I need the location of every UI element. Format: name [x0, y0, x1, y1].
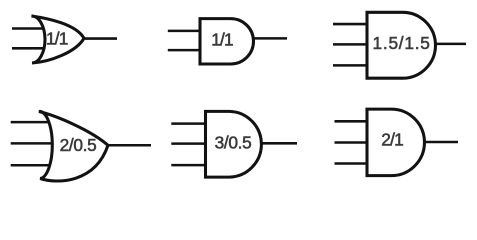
svg-text:3/0.5: 3/0.5: [215, 132, 252, 152]
svg-text:2/0.5: 2/0.5: [60, 135, 97, 155]
svg-text:1/1: 1/1: [46, 29, 68, 49]
svg-text:1/1: 1/1: [211, 30, 233, 50]
svg-text:1.5/1.5: 1.5/1.5: [373, 33, 431, 53]
svg-text:2/1: 2/1: [381, 129, 403, 149]
